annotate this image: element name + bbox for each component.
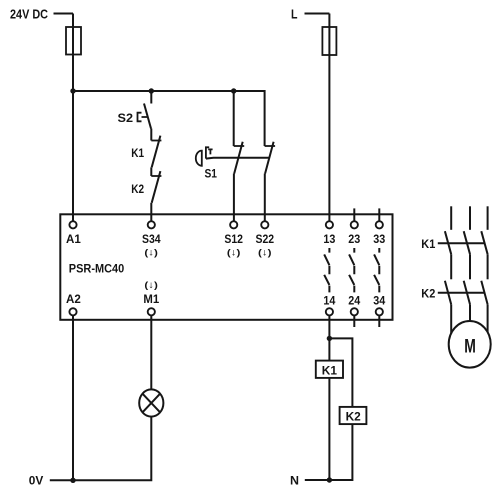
- svg-text:K2: K2: [131, 184, 144, 196]
- relay coil K1: [316, 361, 343, 378]
- svg-text:A1: A1: [66, 234, 81, 246]
- node junction dot at S2 column: [149, 88, 154, 93]
- svg-text:23: 23: [348, 234, 360, 246]
- wire between S2 and K1 contact: [150, 129, 152, 141]
- contact K2 (NC feedback) seat: [151, 175, 161, 177]
- emergency stop S1 contact A blade (NC): [234, 142, 243, 174]
- terminal S12: [230, 221, 237, 228]
- wire phase 1 down to motor: [450, 304, 452, 333]
- svg-text:S2: S2: [118, 111, 134, 125]
- label K2 contactor: [421, 287, 435, 301]
- label S2: [118, 111, 134, 125]
- contactor K2 linkage bar: [438, 292, 485, 294]
- label (down arrow) above M1: [144, 280, 158, 291]
- svg-text:S34: S34: [142, 234, 161, 246]
- label 23: [348, 234, 360, 246]
- label L supply: [291, 8, 298, 22]
- S1 actuator stem and latch symbol: [206, 147, 213, 158]
- label K1 coil: [322, 363, 338, 377]
- relay coil K2: [340, 407, 367, 424]
- stub below terminal 34: [378, 316, 380, 327]
- wire L lead: [305, 13, 330, 15]
- wire +24V vertical from lead through fuse to terminal A1: [72, 14, 74, 221]
- wire lamp down and 0V rail: [50, 416, 152, 480]
- label 24V DC supply: [10, 8, 48, 22]
- stub above terminal 23: [353, 208, 355, 220]
- pushbutton S2 (NO contact blade): [144, 104, 151, 129]
- svg-text:K2: K2: [421, 287, 435, 301]
- label 33: [373, 234, 385, 246]
- terminal A2: [69, 308, 76, 315]
- contact K1 (NC feedback) blade: [152, 136, 161, 168]
- label 24: [348, 295, 361, 307]
- contactor K2 main contact blade phase 1: [445, 281, 451, 305]
- terminal 14: [326, 308, 333, 315]
- label S1: [205, 167, 218, 181]
- svg-text:N: N: [290, 474, 299, 488]
- fuse F1: [66, 27, 81, 55]
- wire S12 branch upper terminal: [233, 91, 235, 146]
- svg-text:PSR-MC40: PSR-MC40: [69, 261, 125, 275]
- label K2: [131, 184, 144, 196]
- label 0V: [29, 474, 44, 488]
- wire A2 down to 0V rail: [72, 316, 74, 480]
- label A2: [66, 294, 81, 306]
- S1 actuator mushroom head: [196, 151, 202, 166]
- label M1: [143, 294, 159, 306]
- pushbutton S2 actuator bracket: [138, 113, 148, 122]
- stub above terminal 33: [378, 208, 380, 220]
- contact K1 (NC feedback) seat: [151, 140, 161, 142]
- emergency stop S1 contact B blade (NC): [265, 142, 274, 174]
- wire K2 coil down to N rail: [305, 424, 353, 480]
- wire S2 column upper terminal: [150, 91, 152, 104]
- svg-text:14: 14: [323, 295, 336, 307]
- relay output contact 33-34 (two NO in series): [374, 248, 379, 292]
- svg-text:(↓): (↓): [144, 248, 158, 259]
- label S22: [256, 234, 275, 246]
- contactor K2 main contact blade phase 3: [481, 281, 487, 305]
- svg-text:M: M: [464, 335, 476, 357]
- label M motor: [464, 335, 476, 357]
- svg-text:24V DC: 24V DC: [10, 8, 48, 22]
- svg-text:(↓): (↓): [144, 280, 158, 291]
- terminal M1: [148, 308, 155, 315]
- S1 mechanical linkage to both contact blades: [206, 157, 269, 160]
- wire from terminal 14 down to K1 coil: [328, 316, 330, 361]
- wire three-phase lead L3: [487, 206, 489, 230]
- label (down arrow) under S22: [258, 248, 272, 259]
- label (down arrow) under S34: [144, 248, 158, 259]
- svg-text:L: L: [291, 8, 298, 22]
- svg-text:(↓): (↓): [258, 248, 272, 259]
- label S12: [224, 234, 243, 246]
- wire from K2 contact to terminal S34: [150, 203, 152, 221]
- svg-text:K1: K1: [131, 148, 144, 160]
- wire top bus from A1 branch to S22 branch: [73, 91, 265, 146]
- wire phase 3 between K1 and K2: [487, 254, 489, 279]
- svg-text:M1: M1: [143, 294, 159, 306]
- contact K2 (NC feedback) blade: [152, 171, 161, 203]
- terminal 33: [376, 221, 383, 228]
- svg-text:S1: S1: [205, 167, 218, 181]
- svg-text:S12: S12: [224, 234, 243, 246]
- wire branch to K2 coil: [329, 338, 352, 407]
- relay module PSR-MC40 body: [60, 214, 392, 319]
- label A1: [66, 234, 81, 246]
- label K2 coil: [346, 410, 362, 424]
- terminal S34: [148, 221, 155, 228]
- terminal 34: [376, 308, 383, 315]
- wire K1 coil to N rail: [328, 378, 330, 480]
- contactor K2 main contact blade phase 2: [464, 281, 470, 305]
- label S34: [142, 234, 161, 246]
- stub below terminal 24: [353, 316, 355, 327]
- terminal A1: [69, 221, 76, 228]
- label K1 contactor: [421, 237, 435, 251]
- motor M: [449, 321, 491, 368]
- wire M1 down to lamp: [150, 316, 152, 390]
- svg-text:S22: S22: [256, 234, 275, 246]
- label K1: [131, 148, 144, 160]
- terminal 13: [326, 221, 333, 228]
- svg-text:24: 24: [348, 295, 361, 307]
- label 14: [323, 295, 336, 307]
- svg-text:0V: 0V: [29, 474, 44, 488]
- wire phase 2 between K1 and K2: [469, 254, 471, 279]
- svg-text:33: 33: [373, 234, 385, 246]
- label (down arrow) under S12: [227, 248, 241, 259]
- svg-text:K2: K2: [346, 410, 362, 424]
- contactor K1 main contact blade phase 3: [481, 231, 487, 254]
- wire between K1 and K2 contacts: [150, 167, 152, 176]
- label 13: [323, 234, 335, 246]
- emergency stop S1 contact B seat: [265, 145, 276, 147]
- wire from S1 contact A to terminal S12: [233, 174, 235, 221]
- svg-text:13: 13: [323, 234, 335, 246]
- node junction dot on 0V rail: [70, 478, 75, 483]
- wire three-phase lead L1: [450, 206, 452, 230]
- emergency stop S1 contact A seat: [234, 145, 245, 147]
- svg-text:(↓): (↓): [227, 248, 241, 259]
- relay output contact 13-14 (two NO in series): [324, 248, 329, 292]
- indicator lamp: [139, 389, 163, 416]
- wire from S1 contact B to terminal S22: [264, 174, 266, 221]
- svg-text:K1: K1: [421, 237, 435, 251]
- svg-text:A2: A2: [66, 294, 81, 306]
- node junction dot on N rail: [327, 477, 332, 482]
- wire phase 1 between K1 and K2: [450, 254, 452, 279]
- wire three-phase lead L2: [469, 206, 471, 230]
- node junction dot at A1 column: [70, 88, 75, 93]
- terminal S22: [261, 221, 268, 228]
- relay output contact 23-24 (two NO in series): [349, 248, 354, 292]
- wire phase 3 down to motor: [487, 304, 489, 332]
- terminal 23: [351, 221, 358, 228]
- terminal 24: [351, 308, 358, 315]
- label 34: [373, 295, 386, 307]
- fuse F2: [322, 27, 336, 55]
- node junction dot at S12 column: [231, 88, 236, 93]
- indicator lamp cross: [142, 394, 160, 413]
- wire L vertical from lead through fuse to terminal 13: [328, 14, 330, 221]
- wire phase 2 down to motor: [469, 304, 471, 321]
- svg-text:34: 34: [373, 295, 386, 307]
- svg-text:K1: K1: [322, 363, 338, 377]
- contactor K1 main contact blade phase 2: [464, 231, 470, 254]
- wire 24V DC lead: [54, 13, 74, 15]
- node junction dot at K1/K2 branch: [327, 336, 332, 341]
- contactor K1 main contact blade phase 1: [445, 231, 451, 254]
- label N: [290, 474, 299, 488]
- label PSR-MC40: [69, 261, 125, 275]
- contactor K1 linkage bar: [438, 242, 485, 244]
